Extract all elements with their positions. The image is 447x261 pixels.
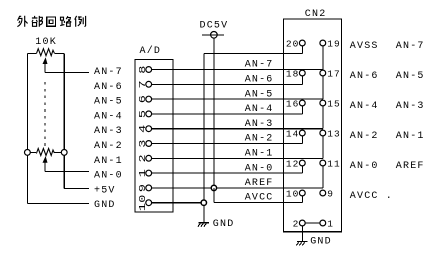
svg-text:AN-2: AN-2 xyxy=(94,141,123,152)
svg-text:AREF: AREF xyxy=(245,178,274,189)
svg-text:13: 13 xyxy=(327,128,340,139)
svg-text:DC5V: DC5V xyxy=(200,21,229,32)
svg-text:AN-1: AN-1 xyxy=(396,131,425,142)
svg-text:GND: GND xyxy=(213,219,235,230)
connector CN2 box xyxy=(284,19,342,232)
svg-text:A/D: A/D xyxy=(140,45,162,57)
pin2-pin1 wire xyxy=(305,222,320,224)
right rail (+5V side) xyxy=(63,54,65,150)
wire row +5V xyxy=(152,187,323,189)
svg-text:15: 15 xyxy=(327,98,340,109)
svg-text:AN-0: AN-0 xyxy=(245,163,274,174)
wire row AN-2 xyxy=(152,143,303,145)
svg-text:AN-6: AN-6 xyxy=(94,82,123,93)
svg-text:9: 9 xyxy=(327,188,334,199)
svg-text:GND: GND xyxy=(310,237,332,248)
CN2 pin 11 xyxy=(320,160,326,166)
svg-text:18: 18 xyxy=(286,68,299,79)
pin2 ground stub xyxy=(301,226,303,242)
VR1 wiper wire to AN-7 xyxy=(44,63,46,72)
svg-text:10: 10 xyxy=(286,188,299,199)
CN2 even pin stubs xyxy=(301,46,303,54)
dashed line (repeated pots) xyxy=(44,82,46,148)
CN2 pin 9 xyxy=(320,190,326,196)
svg-text:AN-7: AN-7 xyxy=(396,41,425,52)
CN2 pin 15 xyxy=(320,100,326,106)
svg-text:11: 11 xyxy=(327,158,340,169)
svg-text:AREF: AREF xyxy=(396,161,425,172)
wire row AN-5 xyxy=(152,98,323,100)
ground (A/D) xyxy=(198,222,209,224)
AVSS/GND vertical xyxy=(203,54,205,223)
svg-text:12: 12 xyxy=(286,158,299,169)
svg-text:AVSS: AVSS xyxy=(350,41,379,52)
svg-text:AN-7: AN-7 xyxy=(245,60,274,71)
left rail (GND side) xyxy=(26,54,28,150)
svg-text:19: 19 xyxy=(327,38,340,49)
wire row AN-1 xyxy=(152,157,323,159)
svg-text:AN-6: AN-6 xyxy=(350,71,379,82)
VR8 wiper wire to AN-0 xyxy=(44,162,46,171)
svg-text:AN-4: AN-4 xyxy=(245,104,274,115)
svg-text:AN-6: AN-6 xyxy=(245,75,274,86)
svg-text:GND: GND xyxy=(94,200,116,211)
svg-text:AN-4: AN-4 xyxy=(350,101,379,112)
svg-text:AN-3: AN-3 xyxy=(94,126,123,137)
wire row AN-0 xyxy=(152,172,303,174)
AVCC jog wire xyxy=(213,188,215,203)
potentiometer VR8 (bottom) xyxy=(25,150,31,156)
title text 外部回路例 (external circuit example), drawn as paths xyxy=(17,16,85,27)
svg-text:AN-2: AN-2 xyxy=(350,131,379,142)
CN2 pin 13 xyxy=(320,130,326,136)
junction DC5V/AREF xyxy=(211,185,216,190)
ground (CN2) xyxy=(297,241,308,243)
svg-text:AN-7: AN-7 xyxy=(94,67,123,78)
svg-text:AN-5: AN-5 xyxy=(94,97,123,108)
wire row GND xyxy=(152,202,204,204)
DC5V feed wire xyxy=(213,38,215,188)
svg-text:14: 14 xyxy=(286,128,299,139)
svg-text:AN-1: AN-1 xyxy=(94,156,123,167)
wire row AN-3 xyxy=(152,128,323,130)
svg-text:16: 16 xyxy=(286,98,299,109)
svg-text:AN-5: AN-5 xyxy=(245,89,274,100)
AVSS wire xyxy=(204,53,302,55)
svg-text:AN-1: AN-1 xyxy=(245,149,274,160)
svg-text:AVCC .: AVCC . xyxy=(350,191,393,202)
svg-text:AN-3: AN-3 xyxy=(245,119,274,130)
svg-text:20: 20 xyxy=(286,38,299,49)
svg-text:AN-2: AN-2 xyxy=(245,134,274,145)
svg-text:AN-3: AN-3 xyxy=(396,101,425,112)
CN2 pin 1 xyxy=(320,220,326,226)
svg-text:AN-5: AN-5 xyxy=(396,71,425,82)
junction GND/pin10 wire xyxy=(201,200,206,205)
wire row AN-6 xyxy=(152,83,303,85)
svg-text:AN-0: AN-0 xyxy=(94,171,123,182)
svg-text:10K: 10K xyxy=(35,37,57,48)
A/D box U1 xyxy=(135,60,173,213)
CN2 pin 17 xyxy=(320,70,326,76)
potentiometer VR1 (top, 10K) xyxy=(27,53,36,55)
svg-text:2: 2 xyxy=(293,218,300,229)
CN2 pin 19 xyxy=(320,40,326,46)
svg-text:AN-4: AN-4 xyxy=(94,111,123,122)
svg-text:1: 1 xyxy=(327,218,334,229)
svg-text:+5V: +5V xyxy=(94,185,116,196)
DC5V terminal xyxy=(202,34,224,36)
wire row AN-4 xyxy=(152,113,303,115)
svg-text:AN-0: AN-0 xyxy=(350,161,379,172)
CN2 odd pin stubs xyxy=(322,46,324,70)
svg-text:17: 17 xyxy=(327,68,340,79)
wire row AN-7 xyxy=(152,69,323,71)
